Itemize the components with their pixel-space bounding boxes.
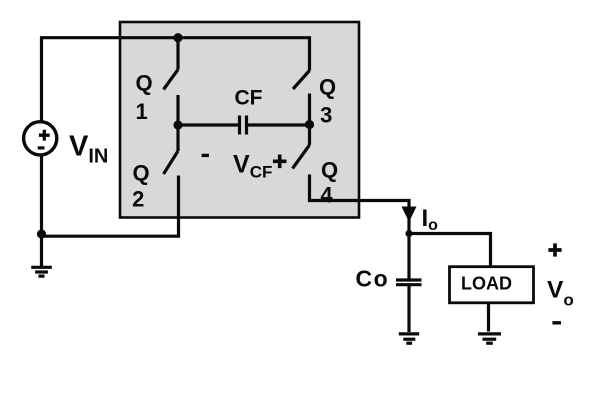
junction node: top bus / Q1 xyxy=(173,33,182,42)
wire: middle bus right of CF xyxy=(248,123,310,126)
svg-text:Co: Co xyxy=(356,266,390,292)
svg-text:1: 1 xyxy=(135,99,147,124)
minus sign at VCF xyxy=(202,154,209,157)
plus sign at VCF xyxy=(273,155,287,169)
junction node: middle bus left xyxy=(173,120,182,129)
svg-text:2: 2 xyxy=(132,187,144,212)
wire: LOAD bottom to ground xyxy=(487,303,490,332)
wire: Q1 bottom stub xyxy=(176,95,179,125)
svg-text:Q: Q xyxy=(135,70,152,95)
svg-text:Vo: Vo xyxy=(547,276,574,309)
wire: output node to LOAD top xyxy=(409,234,491,268)
wire: Q4 bottom stub to output node xyxy=(310,175,410,234)
wire: Q3 bottom stub xyxy=(308,94,311,126)
svg-text:Io: Io xyxy=(422,205,439,234)
svg-text:4: 4 xyxy=(320,183,333,208)
wire: middle bus left of CF xyxy=(178,123,238,126)
switch Q3 blade xyxy=(293,71,310,90)
switch Q2 blade xyxy=(164,151,179,174)
wire: Q2 top terminal xyxy=(176,125,179,151)
wire: ground stub at VIN xyxy=(40,236,43,266)
minus sign at output xyxy=(552,321,561,324)
svg-text:VIN: VIN xyxy=(69,131,108,168)
ground symbol under LOAD xyxy=(478,334,501,343)
svg-text:3: 3 xyxy=(320,103,332,128)
converter block (shaded box) xyxy=(120,22,359,218)
arrowhead Io (current direction) xyxy=(402,207,417,223)
wire: VIN bottom xyxy=(40,155,43,236)
voltage source VIN xyxy=(24,122,57,155)
ground symbol at VIN xyxy=(31,267,52,276)
plus sign at output xyxy=(548,243,561,256)
wire: Q2 bottom stub to bottom-left bus xyxy=(42,176,179,237)
junction node: output node xyxy=(405,230,412,237)
capacitor CF plates xyxy=(238,116,241,135)
svg-text:Q: Q xyxy=(319,75,336,100)
wire: Q4 top terminal xyxy=(308,125,311,145)
junction node: middle bus right xyxy=(305,120,314,129)
wire: VIN top to top bus to Q3 terminal xyxy=(42,38,310,122)
junction node: VIN bottom / ground xyxy=(37,229,46,238)
wire: output node to Co top plate xyxy=(407,234,410,279)
switch Q4 blade xyxy=(293,145,310,169)
ground symbol under Co xyxy=(399,334,419,343)
switch Q1 blade xyxy=(164,70,179,90)
wire: Co bottom to ground xyxy=(407,286,410,332)
svg-text:Q: Q xyxy=(321,158,338,183)
capacitor Co plates xyxy=(396,278,422,281)
LOAD box xyxy=(450,267,534,303)
svg-text:LOAD: LOAD xyxy=(461,274,512,294)
svg-text:CF: CF xyxy=(235,86,263,109)
svg-text:Q: Q xyxy=(132,160,149,185)
wire: Q1 top terminal xyxy=(176,38,179,70)
